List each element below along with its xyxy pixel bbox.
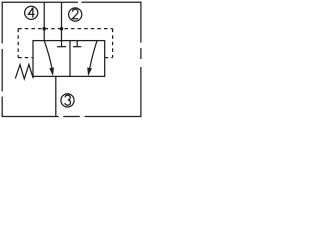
port circle 4 [25, 6, 38, 19]
pilot envelope dashed rect bottom right run [105, 57, 113, 59]
port label 2 [72, 9, 78, 19]
enclosure border bottom [2, 116, 59, 118]
blocked port T right square bar [73, 46, 81, 48]
enclosure border left [1, 2, 3, 44]
pilot envelope dashed rect bottom left run [18, 57, 35, 59]
pilot junction node on port 4 line [42, 27, 46, 31]
valve body rectangle [33, 41, 105, 77]
spring [15, 64, 33, 79]
enclosure border top [2, 1, 78, 3]
pilot envelope dashed rect left [17, 29, 19, 58]
port label 3 [65, 95, 71, 105]
wire port 3 line [55, 76, 57, 116]
pilot junction node on port 2 line [60, 27, 64, 31]
enclosure border right [140, 2, 142, 43]
valve position divider [69, 41, 71, 77]
flow arrow left square head [49, 68, 54, 77]
blocked port T right square stub [76, 41, 78, 47]
pilot envelope dashed rect right [112, 29, 114, 58]
blocked port T left square stub [61, 41, 63, 47]
port label 4 [28, 8, 34, 18]
port circle 2 [69, 8, 82, 21]
wire port 2 line [61, 2, 63, 40]
flow arrow right square shaft [90, 41, 97, 69]
wire port 4 line [43, 2, 45, 40]
port circle 3 [61, 94, 74, 107]
flow arrow right square head [87, 68, 92, 77]
blocked port T left square bar [57, 46, 66, 48]
flow arrow left square shaft [44, 41, 52, 69]
pilot envelope dashed rect top [18, 28, 112, 30]
